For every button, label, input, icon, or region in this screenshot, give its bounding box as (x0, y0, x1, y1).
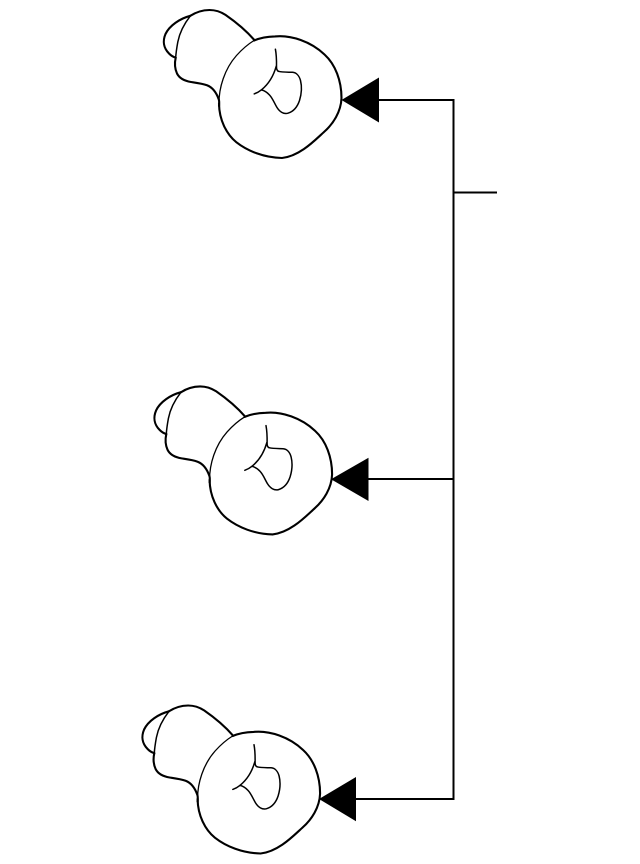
bulb 3 filament support (233, 762, 255, 790)
bulb 1 base neck lower outline (175, 58, 219, 106)
vertical trunk wire (453, 99, 455, 800)
bulb 3 glass globe (198, 732, 321, 854)
callout stub wire (454, 192, 498, 194)
bulb 3 base cap seam (154, 711, 169, 753)
bulb 3 filament stem (254, 745, 257, 767)
bulb 1 filament stem (275, 49, 278, 71)
leader wire to bulb 1 (377, 99, 455, 101)
bulb 3 glass globe hidden edge behind base (198, 736, 233, 799)
bulb 3 base neck upper outline (169, 706, 233, 736)
bulb 2 glass globe hidden edge behind base (210, 417, 245, 480)
bulb 3 base neck lower outline (154, 753, 198, 801)
bulb 3 (bottom light bulb) (142, 706, 320, 854)
bulb 2 filament loop (252, 448, 292, 490)
bulb 2 glass globe (210, 413, 333, 535)
bulb 1 (top light bulb) (164, 10, 342, 158)
bulb 3 filament loop (240, 767, 280, 809)
arrowhead to bulb 3 (319, 777, 356, 821)
bulb 2 base cap seam (166, 392, 181, 434)
bulb 1 glass globe hidden edge behind base (219, 41, 254, 104)
bulb 1 base neck upper outline (190, 10, 254, 40)
bulb 2 filament stem (266, 426, 269, 448)
bulb 2 base neck lower outline (166, 434, 210, 482)
bulb 2 base end cap (154, 392, 181, 434)
bulb 1 glass globe (219, 36, 342, 158)
bulb 1 filament loop (261, 71, 301, 113)
arrowhead to bulb 2 (331, 458, 369, 501)
bulb 1 filament support (254, 66, 276, 94)
bulb 1 base end cap (164, 16, 191, 58)
bulb 2 base neck upper outline (181, 386, 245, 416)
bulb 1 base cap seam (176, 16, 191, 58)
leader wire to bulb 2 (366, 478, 455, 480)
bulb 2 (middle light bulb) (154, 386, 332, 534)
bulb 2 filament support (245, 443, 267, 471)
arrowhead to bulb 1 (342, 78, 380, 123)
bulb 3 base end cap (142, 711, 169, 753)
leader wire to bulb 3 (354, 798, 455, 800)
